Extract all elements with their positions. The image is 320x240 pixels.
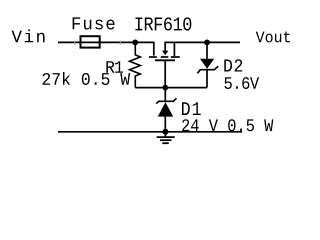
node D junction (D1 anode to ground) xyxy=(162,129,168,135)
label 24 V 0.5 W xyxy=(182,119,273,131)
node B junction (D2 cathode / Vout) xyxy=(204,40,210,46)
wire: ground rail xyxy=(58,131,242,133)
channel dash (drain contact) xyxy=(149,56,157,58)
ground xyxy=(157,132,175,143)
label IRF610 xyxy=(135,17,191,30)
label 5.6V xyxy=(224,77,259,89)
gate lead xyxy=(164,60,166,87)
wire: top input segment Vin to fuse to MOSFET drain xyxy=(58,42,154,55)
gate bar xyxy=(155,59,175,61)
channel dash (body contact) xyxy=(161,56,169,58)
wire endpoint tick xyxy=(119,41,121,45)
wire: top output segment MOSFET body/source to Vout xyxy=(165,42,240,50)
label Fuse xyxy=(73,17,115,29)
label D2 xyxy=(224,59,242,71)
zener diode D1 24V xyxy=(156,88,176,132)
node A junction (fuse / R1 / drain) xyxy=(132,40,138,46)
resistor R1 xyxy=(130,42,141,87)
zener diode D2 5.6V xyxy=(197,42,218,87)
label 27k 0.5 W xyxy=(43,72,131,85)
source lead xyxy=(173,42,175,56)
channel dash (source contact) xyxy=(171,56,180,58)
fuse F1 xyxy=(81,36,100,47)
node C junction (gate node) xyxy=(162,85,168,91)
label Vout xyxy=(256,32,290,43)
transistor Q1 IRF610 (N-MOSFET) xyxy=(149,42,180,87)
label R1 xyxy=(106,61,123,73)
label Vin xyxy=(12,30,45,43)
wire: gate node horizontal (R1 / gate / D1 / D2) xyxy=(135,87,207,89)
body lead arrowhead xyxy=(162,51,168,56)
label D1 xyxy=(182,102,201,115)
wire endpoint tick xyxy=(74,41,76,45)
